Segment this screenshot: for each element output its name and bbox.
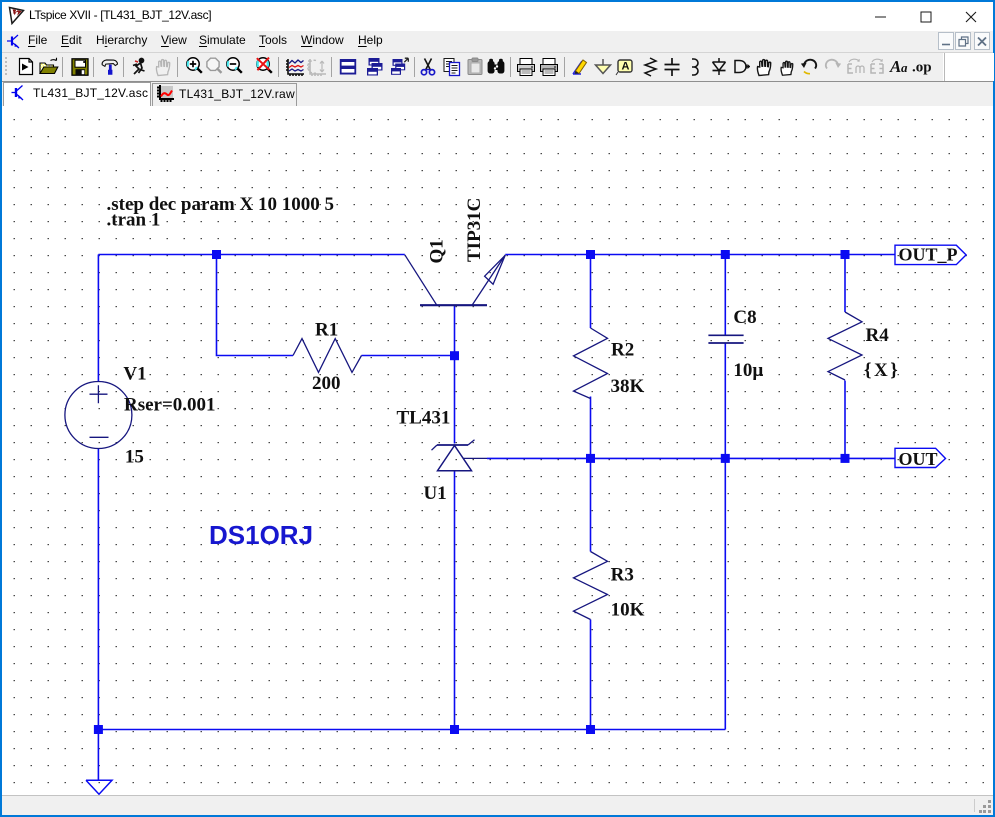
app icon [8, 6, 27, 25]
svg-text:Q1: Q1 [427, 239, 448, 263]
wire R3 bottom [590, 620, 592, 730]
svg-text:38K: 38K [611, 376, 645, 397]
wire mid rail OUT [487, 457, 895, 459]
svg-text:A: A [622, 61, 630, 73]
capacitor C8 [708, 335, 743, 343]
wire TL431 anode down [454, 471, 456, 730]
wire bottom rail [98, 729, 726, 731]
svg-text:R4: R4 [866, 325, 890, 346]
svg-text:DS1ORJ: DS1ORJ [209, 520, 313, 550]
voltage source V1 [65, 382, 132, 449]
wire R2 top [590, 255, 592, 329]
wire R1 left [217, 255, 294, 356]
svg-text:C8: C8 [733, 307, 756, 328]
wire Q1 base to TL431 [454, 306, 456, 444]
menu bar [2, 31, 993, 52]
toolbar [2, 53, 943, 81]
svg-text:A: A [889, 57, 901, 76]
wire top rail left [98, 254, 404, 256]
TL431 U1 [432, 440, 488, 471]
svg-text:R2: R2 [611, 339, 634, 360]
junction U1 bottom rail [450, 725, 459, 734]
svg-text:15: 15 [125, 447, 144, 468]
wire top rail right [505, 254, 895, 256]
svg-text:.tran 1: .tran 1 [107, 210, 161, 231]
svg-text:OUT_P: OUT_P [899, 245, 958, 265]
svg-text:U1: U1 [424, 483, 447, 504]
svg-text:TL431: TL431 [397, 407, 451, 428]
svg-text:10K: 10K [611, 600, 645, 621]
MDI child buttons [938, 31, 993, 51]
junction R1 top rail [212, 250, 221, 259]
wire C8 riser [724, 458, 726, 729]
wire R2 bottom [590, 397, 592, 459]
junction R2-R3 mid rail [586, 454, 595, 463]
junction C8 mid rail [721, 454, 730, 463]
resistor R3 [574, 552, 608, 620]
junction ground rail left [94, 725, 103, 734]
tab bar [2, 82, 993, 106]
wire ground stem [97, 730, 99, 781]
wire R4 top [844, 255, 846, 313]
resistor R2 [574, 328, 608, 399]
svg-text:.op: .op [912, 60, 932, 76]
wire R4 bottom [844, 381, 846, 459]
transistor Q1 [405, 255, 506, 305]
junction R4 mid rail [841, 454, 850, 463]
menu system icon (blue transistor) [6, 33, 22, 50]
svg-text:200: 200 [312, 373, 341, 394]
svg-text:Rser=0.001: Rser=0.001 [124, 395, 216, 416]
resize grip [979, 800, 992, 813]
ground [86, 780, 112, 794]
junction R3 bottom rail [586, 725, 595, 734]
wire R3 top [590, 458, 592, 551]
resistor R1 [293, 339, 362, 373]
wire V1 bottom [97, 449, 99, 730]
title bar [2, 2, 993, 31]
wire C8 top [724, 255, 726, 336]
junction R1 to Q1 base [450, 351, 459, 360]
resistor R4 [828, 312, 862, 380]
svg-text:V1: V1 [123, 363, 146, 384]
svg-text:TIP31C: TIP31C [464, 198, 485, 262]
flag OUT [895, 448, 946, 467]
svg-text:{X}: {X} [864, 360, 900, 381]
wire R1 right [362, 355, 455, 357]
tab2 waveform icon [156, 85, 174, 103]
svg-text:R3: R3 [611, 565, 634, 586]
caption buttons [858, 2, 903, 31]
junction R2 top rail [586, 250, 595, 259]
junction C8 top rail [721, 250, 730, 259]
status bar [2, 795, 993, 815]
junction R4 top rail [841, 250, 850, 259]
flag OUT_P [895, 245, 966, 264]
wire V1 top [97, 255, 99, 382]
svg-text:R1: R1 [315, 320, 338, 341]
svg-text:a: a [901, 60, 908, 75]
svg-text:OUT: OUT [899, 449, 938, 469]
wire C8 bottom [724, 344, 726, 459]
svg-text:10µ: 10µ [733, 360, 763, 381]
tab1 schematic icon [11, 84, 25, 102]
